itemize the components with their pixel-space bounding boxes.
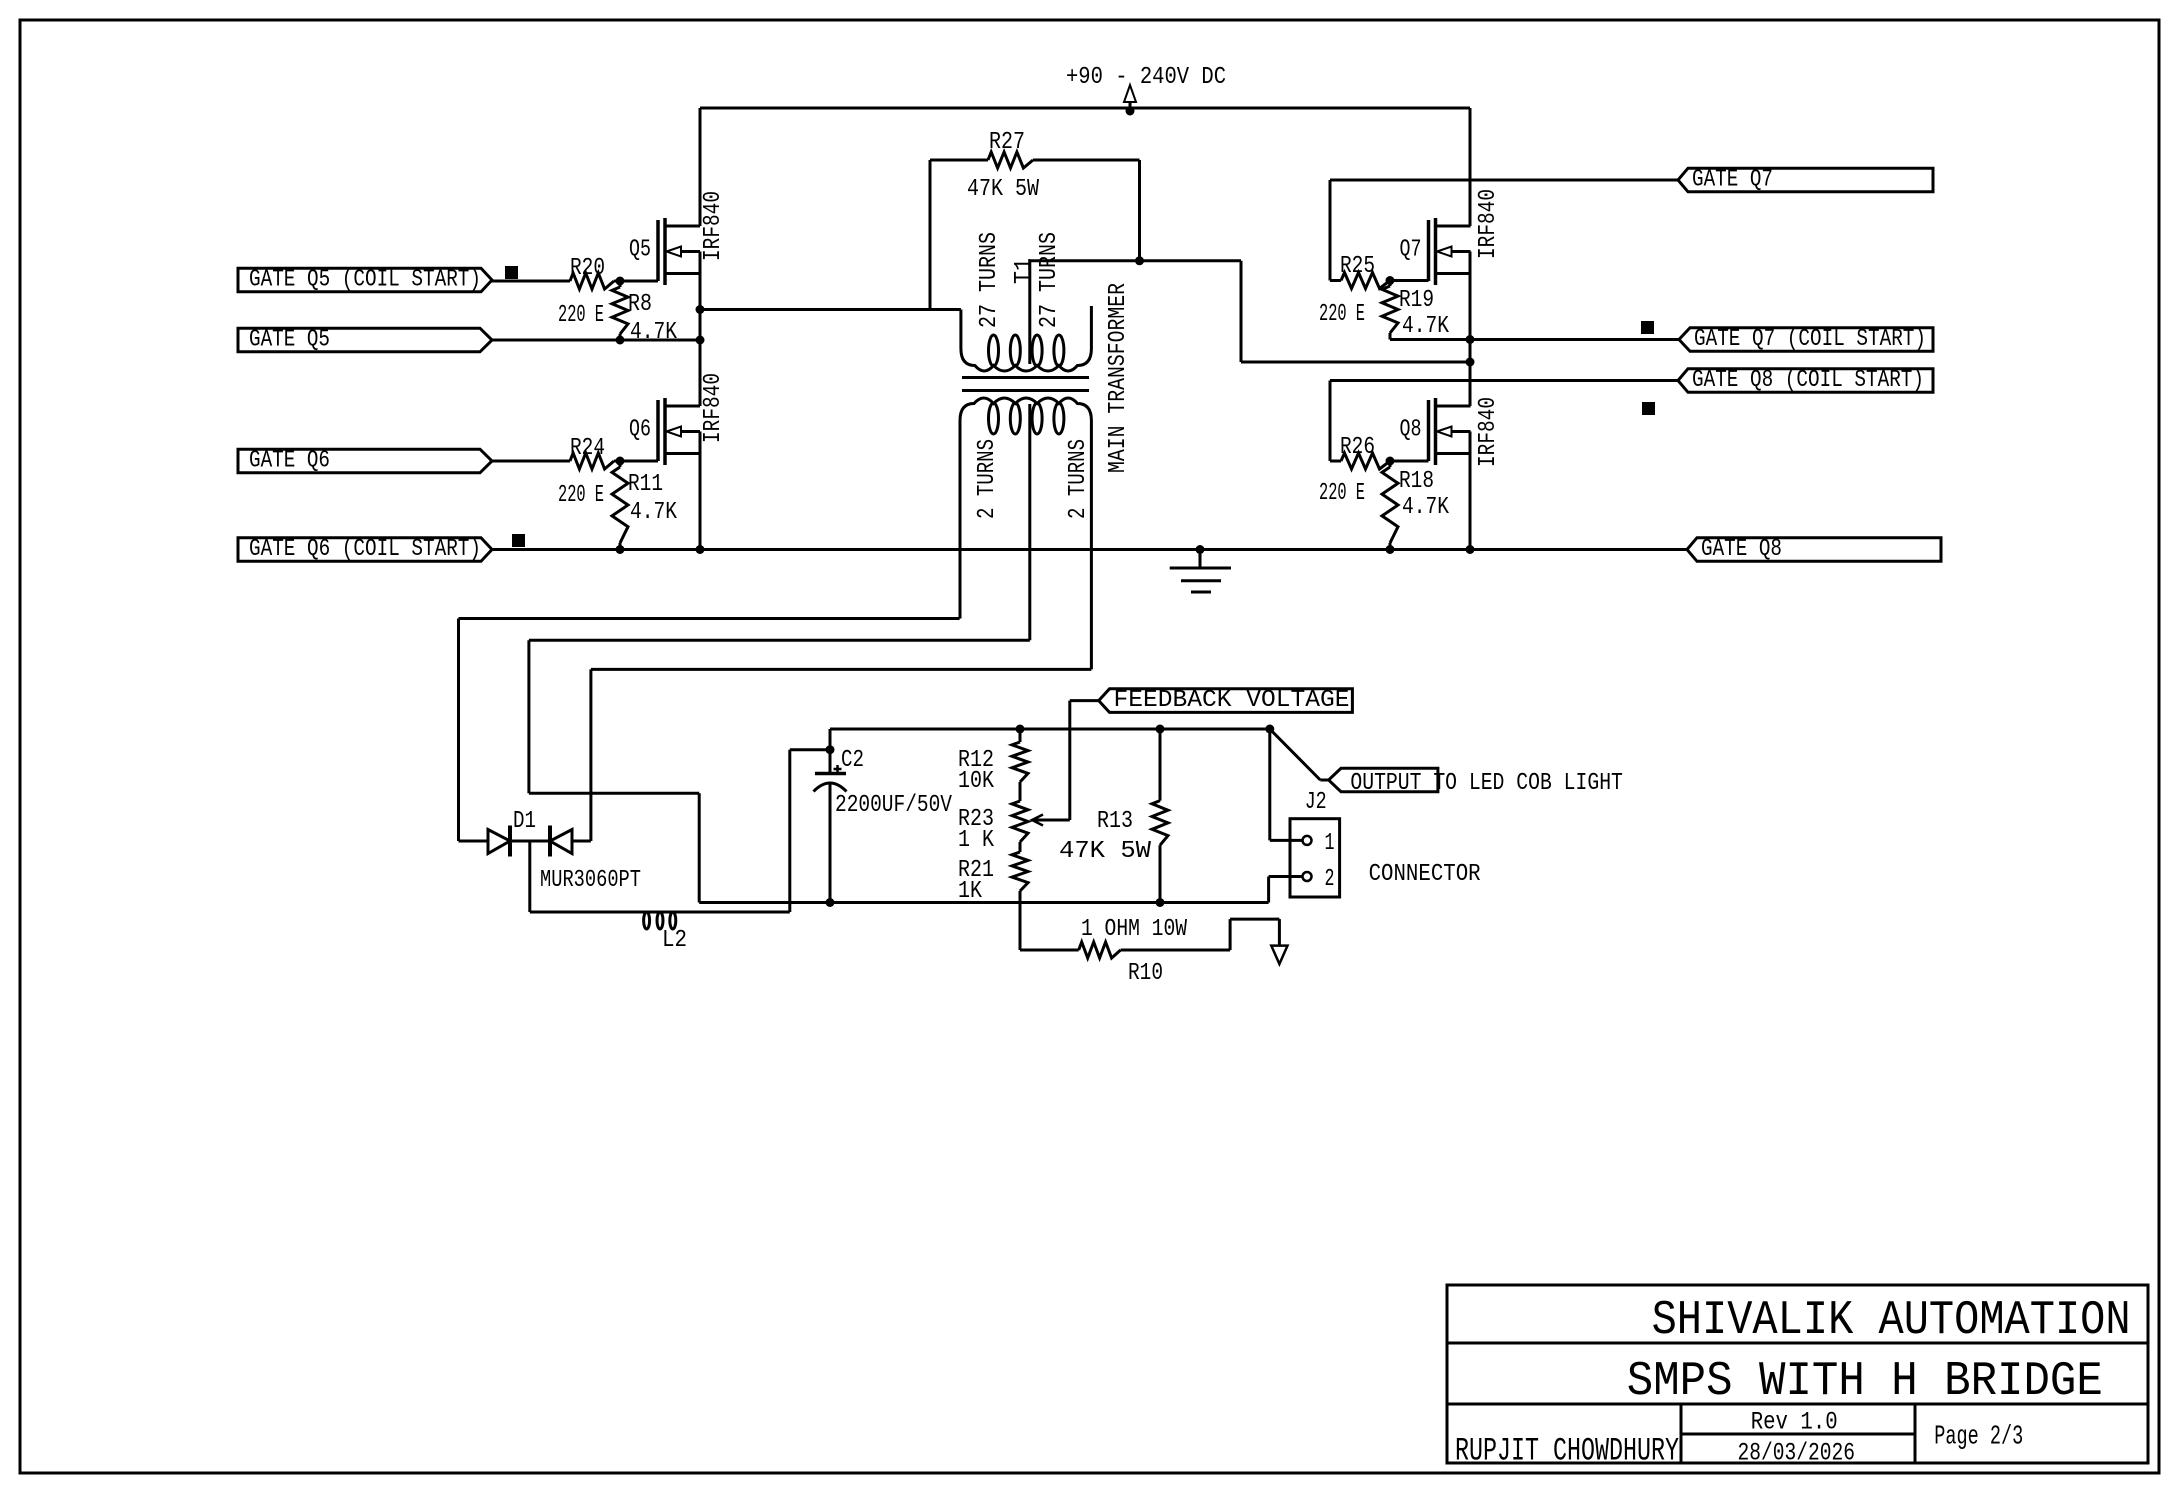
ground <box>1170 550 1231 593</box>
svg-text:2 TURNS: 2 TURNS <box>974 439 1001 519</box>
resistor R27 <box>930 129 1140 203</box>
svg-text:R10: R10 <box>1128 960 1163 987</box>
svg-text:4.7K: 4.7K <box>630 499 677 526</box>
svg-text:Q6: Q6 <box>629 417 651 444</box>
wire GATE Q8 (COIL START) to R26 <box>1330 381 1678 462</box>
label MAIN TRANSFORMER <box>1105 283 1132 473</box>
svg-text:1 K: 1 K <box>958 827 994 854</box>
svg-text:L2: L2 <box>662 927 687 954</box>
svg-text:RUPJIT CHOWDHURY: RUPJIT CHOWDHURY <box>1455 1433 1679 1470</box>
svg-text:GATE Q6: GATE Q6 <box>249 448 330 475</box>
net flag GATE Q7 <box>1678 167 1933 194</box>
svg-text:MAIN TRANSFORMER: MAIN TRANSFORMER <box>1105 283 1132 473</box>
wire Q6 source bus <box>699 432 702 550</box>
label 27 TURNS (left) <box>976 232 1003 328</box>
wire return rail <box>699 898 1268 907</box>
svg-text:47K 5W: 47K 5W <box>1059 838 1152 865</box>
label 2 TURNS (right) <box>1065 439 1092 519</box>
svg-text:220 E: 220 E <box>558 482 604 509</box>
net flag OUTPUT TO LED COB LIGHT <box>1270 729 1623 797</box>
label 2 TURNS (left) <box>974 439 1001 519</box>
svg-text:R8: R8 <box>628 291 652 318</box>
net flag GATE Q6 (COIL START) <box>238 536 492 563</box>
power flag +90 - 240V DC <box>1066 64 1226 116</box>
wire Q8 source bus <box>1469 432 1472 550</box>
wire D1 cathodes to L2 <box>528 841 531 912</box>
wire Q5 source bus <box>696 252 705 407</box>
svg-text:R25: R25 <box>1340 253 1375 280</box>
svg-text:IRF840: IRF840 <box>1475 189 1502 259</box>
svg-text:T1: T1 <box>1011 258 1038 284</box>
svg-text:GATE Q7 (COIL START): GATE Q7 (COIL START) <box>1694 326 1926 353</box>
svg-text:R20: R20 <box>570 255 605 282</box>
svg-text:GATE Q6 (COIL START): GATE Q6 (COIL START) <box>249 536 481 563</box>
net flag GATE Q8 <box>1687 536 1941 563</box>
wire T1 center tap to Q7/Q8 midpoint <box>1030 256 1470 362</box>
connector J2 <box>1290 789 1481 897</box>
net flag GATE Q7 (COIL START) <box>1679 326 1933 353</box>
title block <box>1447 1285 2148 1470</box>
resistor R20 <box>558 255 658 329</box>
svg-text:Q7: Q7 <box>1400 237 1422 264</box>
resistor R19 <box>1382 281 1449 341</box>
wire GATE Q6 (COIL START) / GATE Q8 net <box>492 545 1687 554</box>
svg-text:4.7K: 4.7K <box>1402 494 1449 521</box>
capacitor C2 (2200UF/50V) <box>814 747 953 907</box>
ground arrow (output return) <box>1271 946 1287 964</box>
resistor R11 <box>612 461 677 550</box>
svg-text:2 TURNS: 2 TURNS <box>1065 439 1092 519</box>
inductor L2 <box>530 912 790 954</box>
resistor R26 <box>1319 434 1429 507</box>
svg-text:R11: R11 <box>628 471 663 498</box>
svg-text:IRF840: IRF840 <box>1475 397 1502 467</box>
svg-text:Page 2/3: Page 2/3 <box>1934 1423 2023 1453</box>
resistor R13 (47K 5W) <box>1059 729 1168 903</box>
wire Q5/Q6 midpoint to T1 primary <box>700 308 961 311</box>
diode D1 (MUR3060PT) <box>459 808 642 894</box>
svg-text:4.7K: 4.7K <box>630 319 677 346</box>
net flag GATE Q5 <box>238 327 492 354</box>
svg-text:27 TURNS: 27 TURNS <box>1036 232 1063 328</box>
svg-text:R19: R19 <box>1399 287 1434 314</box>
label 27 TURNS (right) <box>1036 232 1063 328</box>
coil start marker Q5 <box>505 266 518 279</box>
wire +V rail (top) <box>700 107 1470 110</box>
wire Q7 drain to rail <box>1469 108 1472 226</box>
svg-text:220 E: 220 E <box>1319 480 1365 507</box>
label T1 <box>1011 258 1038 284</box>
wire secondary right to D1 anode-2 <box>591 669 1092 841</box>
wire R27 left to primary <box>929 160 932 310</box>
resistor R10 (1 OHM 10W) <box>1020 903 1230 988</box>
transistor Q8 (IRF840) <box>1400 397 1503 467</box>
potentiometer R23 <box>958 782 1070 854</box>
resistor R12 <box>958 729 1028 795</box>
svg-text:1K: 1K <box>958 878 982 905</box>
transistor Q6 (IRF840) <box>629 373 727 465</box>
svg-text:SHIVALIK AUTOMATION: SHIVALIK AUTOMATION <box>1652 1294 2131 1348</box>
svg-text:4.7K: 4.7K <box>1402 313 1449 340</box>
wire L2 to C2+/output <box>790 745 835 912</box>
svg-text:2: 2 <box>1325 866 1335 893</box>
svg-text:28/03/2026: 28/03/2026 <box>1738 1439 1856 1468</box>
coil start marker Q7 <box>1641 321 1654 334</box>
svg-text:FEEDBACK VOLTAGE: FEEDBACK VOLTAGE <box>1114 687 1350 714</box>
svg-text:IRF840: IRF840 <box>700 373 727 443</box>
svg-text:Q8: Q8 <box>1400 417 1422 444</box>
svg-text:2200UF/50V: 2200UF/50V <box>835 792 952 819</box>
resistor R8 <box>612 281 677 346</box>
wire Q7 source bus <box>1466 252 1475 407</box>
svg-text:R26: R26 <box>1340 434 1375 461</box>
wire GATE Q5 to bus <box>492 336 700 345</box>
transistor Q5 (IRF840) <box>629 191 727 285</box>
J2 pin 2 <box>1269 866 1335 903</box>
transistor Q7 (IRF840) <box>1400 189 1503 285</box>
svg-text:GATE Q8: GATE Q8 <box>1701 536 1782 563</box>
wire +output rail <box>830 725 1274 750</box>
coil start marker Q6 <box>512 534 525 547</box>
svg-text:27 TURNS: 27 TURNS <box>976 232 1003 328</box>
resistor R25 <box>1319 253 1429 328</box>
svg-text:+90 - 240V DC: +90 - 240V DC <box>1066 64 1226 91</box>
svg-text:J2: J2 <box>1305 789 1327 816</box>
net flag FEEDBACK VOLTAGE <box>1070 687 1353 820</box>
wire R10 to ground arrow <box>1230 919 1279 950</box>
transformer T1 core <box>962 378 1089 391</box>
node: Q5 gate wire <box>492 280 570 283</box>
svg-text:1 OHM 10W: 1 OHM 10W <box>1081 916 1187 943</box>
svg-text:GATE Q8 (COIL START): GATE Q8 (COIL START) <box>1692 367 1924 394</box>
net flag GATE Q5 (COIL START) <box>238 267 492 294</box>
wire secondary center tap to return rail <box>529 640 1030 902</box>
svg-text:CONNECTOR: CONNECTOR <box>1369 861 1481 888</box>
net flag GATE Q6 <box>238 448 492 475</box>
svg-text:GATE Q7: GATE Q7 <box>1692 167 1773 194</box>
svg-text:GATE Q5: GATE Q5 <box>249 327 330 354</box>
svg-text:IRF840: IRF840 <box>700 191 727 261</box>
resistor R24 <box>558 435 658 509</box>
wire GATE Q7 to R25 <box>1330 180 1678 281</box>
svg-text:47K 5W: 47K 5W <box>967 176 1039 203</box>
net flag GATE Q8 (COIL START) <box>1678 367 1933 394</box>
wire Q5 drain to rail <box>699 108 702 226</box>
svg-text:220 E: 220 E <box>558 302 604 329</box>
resistor R21 <box>958 842 1028 905</box>
transformer T1 primary winding (27+27 turns) <box>961 261 1092 371</box>
svg-text:R27: R27 <box>989 129 1025 156</box>
wire R27 right to center-tap net <box>1138 160 1141 261</box>
svg-text:Q5: Q5 <box>629 237 651 264</box>
svg-text:MUR3060PT: MUR3060PT <box>540 867 641 894</box>
svg-text:D1: D1 <box>513 808 536 835</box>
svg-text:220 E: 220 E <box>1319 301 1365 328</box>
svg-text:R13: R13 <box>1097 808 1133 835</box>
svg-text:SMPS WITH H BRIDGE: SMPS WITH H BRIDGE <box>1627 1355 2103 1409</box>
svg-text:10K: 10K <box>958 768 994 795</box>
resistor R18 <box>1382 461 1449 550</box>
wire secondary left to D1 anode-1 <box>459 619 960 842</box>
node: Q6 gate wire <box>492 460 570 463</box>
svg-text:R18: R18 <box>1399 468 1434 495</box>
transformer T1 secondary winding (2+2 turns) <box>960 398 1091 669</box>
J2 pin 1 <box>1270 729 1335 857</box>
svg-text:R24: R24 <box>570 435 605 462</box>
coil start marker Q8 <box>1642 402 1655 415</box>
svg-text:C2: C2 <box>841 747 864 774</box>
svg-text:Rev 1.0: Rev 1.0 <box>1751 1408 1838 1437</box>
svg-text:GATE Q5 (COIL START): GATE Q5 (COIL START) <box>249 267 481 294</box>
svg-text:1: 1 <box>1325 830 1335 857</box>
wire R19 to GATE Q7 (COIL START) <box>1390 338 1679 341</box>
svg-text:OUTPUT TO LED COB LIGHT: OUTPUT TO LED COB LIGHT <box>1350 770 1623 797</box>
